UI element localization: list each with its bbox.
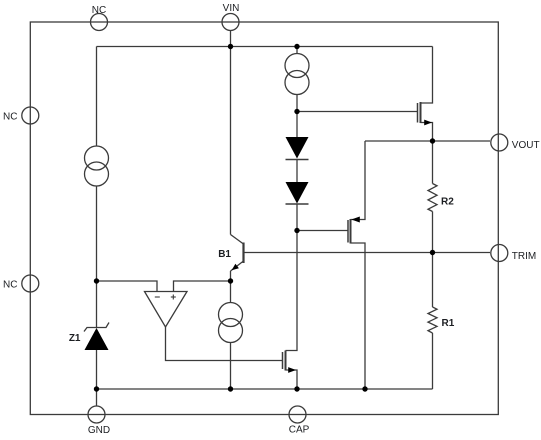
node A: minus input / zener / I1: [94, 278, 99, 283]
pin CAP: [289, 406, 306, 423]
node: VIN / top rail junction: [228, 44, 233, 49]
node B: I2 / D1 / M1 gate: [294, 109, 299, 114]
mosfet M3 source arrow: [288, 367, 296, 373]
mosfet M2 drain lead: [351, 243, 366, 389]
svg-text:NC: NC: [92, 5, 106, 16]
pin VIN: [222, 14, 239, 31]
mosfet M3 channel bar: [285, 351, 287, 371]
wire: I3 bottom to ground rail: [230, 343, 232, 390]
mosfet M1 source lead: [421, 123, 433, 142]
svg-text:NC: NC: [3, 112, 17, 123]
wire: I2 bottom to node B: [296, 95, 298, 112]
wire: node C gate line to M2: [297, 230, 348, 232]
resistor R1: [428, 307, 437, 333]
package boundary: [30, 22, 498, 415]
svg-text:CAP: CAP: [289, 425, 310, 436]
current source I2: [285, 54, 309, 78]
node: ground rail / GND pin: [94, 386, 99, 391]
wire: R1 bottom to ground rail: [432, 333, 434, 389]
svg-text:NC: NC: [3, 280, 17, 291]
node D: B1 emitter / plus input / I3: [228, 278, 233, 283]
mosfet M2 source arrow: [351, 217, 360, 223]
wire: node B gate line to M1: [297, 111, 417, 113]
pin VOUT: [491, 134, 508, 151]
pin TRIM: [491, 245, 508, 262]
node: TRIM rail / R1 / R2: [430, 250, 435, 255]
diode D1 cathode bar: [286, 159, 309, 161]
op-amp U1 plus sign: [171, 296, 176, 298]
svg-text:TRIM: TRIM: [512, 251, 536, 262]
wire: VOUT rail: [365, 140, 490, 142]
wire: node D to current source I3: [230, 281, 232, 303]
wire: node A down to zener Z1: [96, 281, 98, 327]
node C: D2 / M2 gate / M3 drain: [294, 228, 299, 233]
wire: rail corner down to current source I1: [96, 47, 98, 147]
pin NC top: [91, 14, 108, 31]
mosfet M2 gate bar: [347, 220, 349, 243]
wire: R2 top to VOUT rail: [432, 141, 434, 184]
transistor B1 collector diagonal: [231, 235, 244, 245]
svg-text:VIN: VIN: [223, 3, 240, 14]
wire: op-amp plus input to B1 emitter node: [174, 281, 231, 292]
node: ground rail / I3: [228, 386, 233, 391]
node: ground rail / M3 source: [294, 386, 299, 391]
mosfet M1 drain lead: [421, 47, 433, 104]
wire: node A line to op-amp minus input: [97, 281, 158, 292]
mosfet M1 channel bar: [420, 102, 422, 123]
wire: rail to current source I2: [296, 47, 298, 54]
pin NC left lower: [22, 275, 39, 292]
current source I3: [219, 303, 243, 327]
current source I1: [85, 146, 109, 170]
zener Z1 cathode bar: [84, 323, 109, 332]
mosfet M3 drain lead: [286, 231, 298, 351]
wire: B1 emitter to node D: [230, 271, 232, 281]
pin NC left upper: [22, 107, 39, 124]
transistor B1 emitter arrow: [232, 264, 239, 271]
transistor B1 emitter diagonal: [231, 261, 244, 271]
svg-text:GND: GND: [88, 425, 110, 436]
wire: top internal rail: [97, 46, 433, 48]
svg-text:R2: R2: [441, 197, 454, 208]
svg-text:Z1: Z1: [69, 333, 81, 344]
node: ground rail / M2 drain: [362, 386, 367, 391]
mosfet M3 gate bar: [282, 352, 284, 369]
wire: U1 output to M3 gate: [166, 327, 283, 361]
wire: D1 to D2: [296, 160, 298, 183]
op-amp U1 body: [145, 292, 188, 328]
wire: node B down to diode D1: [296, 112, 298, 138]
wire: VIN column down to B1 collector: [230, 47, 232, 235]
wire: Z1 anode to ground rail and GND pin: [96, 350, 98, 406]
wire: D2 to node C: [296, 204, 298, 231]
svg-text:R1: R1: [442, 318, 455, 329]
mosfet M1 gate bar: [417, 103, 419, 123]
mosfet M3 source lead: [286, 370, 298, 389]
pin GND: [88, 406, 105, 423]
wire: I1 bottom to node A: [96, 186, 98, 281]
wire: TRIM rail (B1 base to TRIM pin): [245, 252, 491, 254]
transistor B1 base bar: [242, 243, 244, 264]
wire: R2 bottom to TRIM rail: [432, 212, 434, 253]
mosfet M2 source lead: [351, 141, 366, 220]
wire: R1 top to TRIM rail: [432, 253, 434, 308]
diode D1 body: [286, 137, 309, 159]
diode D2 body: [286, 182, 309, 204]
node: top rail / I2 junction: [294, 44, 299, 49]
op-amp U1 minus sign: [155, 296, 160, 298]
zener Z1 body: [85, 328, 109, 350]
svg-text:B1: B1: [218, 249, 231, 260]
wire: VIN pin to top rail: [230, 31, 232, 47]
node: VOUT rail / M1 source / R2: [430, 138, 435, 143]
wire: bottom ground rail: [97, 388, 433, 390]
diode D2 cathode bar: [286, 203, 309, 205]
svg-text:VOUT: VOUT: [512, 140, 540, 151]
mosfet M2 channel bar: [350, 219, 352, 244]
mosfet M1 source arrow: [424, 120, 432, 126]
resistor R2: [428, 184, 437, 212]
